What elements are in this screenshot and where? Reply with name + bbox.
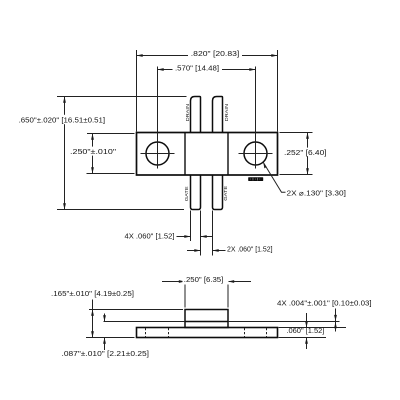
extension line (lead4 left edge)	[212, 211, 214, 256]
.650 bottom extension line (lower lead tips)	[57, 209, 184, 211]
.250 dim text	[69, 147, 118, 156]
svg-text:.060" [1.52]: .060" [1.52]	[286, 326, 324, 335]
lead 1 (upper left)	[191, 97, 201, 133]
.650 arrow bottom	[63, 203, 66, 209]
cap left edge line	[184, 133, 186, 176]
flange top extension line (right)	[279, 327, 347, 329]
2X dia .130 leader arrow	[263, 162, 266, 168]
4X .004 arrow (points up)	[334, 322, 337, 328]
left hole vertical centerline / .570 extension	[157, 67, 159, 169]
svg-text:2X ⌀.130" [3.30]: 2X ⌀.130" [3.30]	[287, 188, 346, 197]
hidden hole line 3	[244, 328, 246, 337]
2X .060 dimension line right part	[213, 250, 226, 252]
svg-text:.250"±.010": .250"±.010"	[70, 147, 117, 156]
.087 dimension line upper segment	[104, 314, 106, 322]
.165 dimension line	[92, 300, 94, 338]
.820 extension line left	[136, 50, 138, 132]
svg-text:GATE: GATE	[184, 186, 189, 201]
.060 dim text	[286, 328, 327, 335]
4X .060 extension line (lead3 left edge)	[190, 211, 192, 242]
cap top extension line (left)	[89, 309, 183, 311]
.250 bottom extension line	[87, 173, 135, 175]
mounting hole left	[146, 142, 169, 165]
lead front face (thick across cap)	[185, 321, 228, 323]
svg-text:4X .004"±.001" [0.10±0.03]: 4X .004"±.001" [0.10±0.03]	[277, 298, 372, 307]
svg-text:.820" [20.83]: .820" [20.83]	[191, 49, 240, 58]
.252 dimension line	[307, 133, 309, 175]
.250 dimension line left part	[162, 281, 185, 283]
.252 dim text	[285, 148, 331, 157]
.820 arrow left	[137, 54, 143, 57]
svg-text:.570" [14.48]: .570" [14.48]	[175, 63, 219, 72]
svg-text:GATE: GATE	[223, 186, 228, 201]
svg-text:.250" [6.35]: .250" [6.35]	[184, 275, 224, 284]
.252 arrow top	[306, 133, 309, 139]
cap right edge line	[227, 133, 229, 176]
flange bottom extension line (left)	[86, 337, 135, 339]
svg-text:.165"±.010" [4.19±0.25]: .165"±.010" [4.19±0.25]	[51, 289, 134, 298]
flange bottom extension line (right)	[279, 337, 327, 339]
.650 dim text	[17, 115, 112, 124]
.252 arrow bottom	[306, 168, 309, 174]
svg-text:.087"±.010" [2.21±0.25]: .087"±.010" [2.21±0.25]	[62, 349, 150, 358]
left hole horizontal centerline	[141, 153, 175, 155]
.820 arrow right	[271, 54, 277, 57]
4X .004 dimension line upper segment	[335, 309, 337, 322]
.250 dimension line right part	[228, 281, 251, 283]
.820 dim text	[188, 49, 242, 58]
svg-text:4X .060" [1.52]: 4X .060" [1.52]	[125, 232, 175, 241]
.250 arrow (points left)	[228, 280, 234, 283]
.650 top extension line (upper lead tips)	[57, 96, 187, 98]
.165 arrow top	[91, 310, 94, 316]
.570 dim text	[173, 63, 223, 72]
hidden hole line 2	[168, 328, 170, 337]
cap block outline	[185, 310, 228, 328]
.250 arrow top	[91, 134, 94, 140]
lead plane line	[104, 321, 340, 323]
.250 cap extension line right	[227, 278, 229, 308]
svg-text:DRAIN: DRAIN	[224, 104, 229, 121]
.650 arrow top	[63, 97, 66, 103]
4X .004 dimension line lower segment	[335, 322, 337, 332]
2X dia .130 leader line	[263, 162, 285, 192]
.252 top extension line (right)	[280, 132, 313, 134]
lead 2 (upper right)	[213, 97, 223, 133]
.250 top extension line	[87, 133, 135, 135]
.252 bottom extension line (right)	[280, 174, 313, 176]
.570 arrow left	[158, 68, 164, 71]
.087 arrow (points down)	[103, 315, 106, 321]
.060 arrow (points down)	[305, 321, 308, 327]
.087 dimension line lower segment	[104, 338, 106, 351]
.820 dimension line	[137, 55, 278, 57]
flange bar outline	[137, 328, 278, 338]
shared extension line (lead3 right edge)	[200, 211, 202, 256]
svg-text:.252" [6.40]: .252" [6.40]	[284, 148, 327, 157]
4X .060 arrow (points left)	[201, 235, 207, 238]
svg-text:DRAIN: DRAIN	[185, 104, 190, 121]
.250 arrow (points right)	[179, 280, 185, 283]
flange body outline	[137, 133, 278, 176]
.570 dimension line	[158, 69, 256, 71]
.250 cap extension line left	[184, 278, 186, 308]
4X .060 dimension line left part	[177, 236, 191, 238]
.570 arrow right	[249, 68, 255, 71]
lead 4 (lower right)	[213, 175, 223, 210]
2X .060 dimension line left part	[187, 250, 201, 252]
hidden hole line 4	[266, 328, 268, 337]
4X .060 dimension line right part	[201, 236, 214, 238]
.250 arrow bottom	[91, 167, 94, 173]
mounting hole right	[244, 142, 267, 165]
svg-text:.650"±.020" [16.51±0.51]: .650"±.020" [16.51±0.51]	[19, 116, 106, 125]
flange label SOURCE (tiny bold)	[248, 177, 263, 181]
4X .060 arrow (points right)	[184, 235, 190, 238]
right hole vertical centerline / .570 extension	[255, 67, 257, 169]
.250 dimension line	[92, 134, 94, 174]
.060 dimension line lower segment	[306, 338, 308, 350]
hidden hole line 1	[145, 328, 147, 337]
.087 arrow (points up)	[103, 338, 106, 344]
lead 3 (lower left)	[191, 175, 201, 210]
.820 extension line right	[277, 50, 279, 132]
.060 arrow (points up)	[305, 338, 308, 344]
.165 arrow bottom	[91, 331, 94, 337]
right hole horizontal centerline	[239, 153, 273, 155]
4X .004 arrow (points down)	[334, 315, 337, 321]
svg-text:2X .060" [1.52]: 2X .060" [1.52]	[227, 245, 273, 254]
.650 dimension line	[64, 97, 66, 210]
.060 dimension line upper segment	[306, 313, 308, 328]
2X .060 arrow (points right)	[194, 249, 200, 252]
.250 bottom dim text	[183, 276, 229, 285]
2X .060 arrow (points left)	[213, 249, 219, 252]
